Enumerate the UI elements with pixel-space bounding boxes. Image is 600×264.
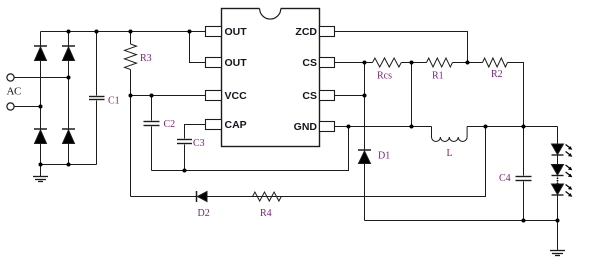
capacitor C2 [144,96,160,171]
wire D1 anode down [364,164,366,221]
capacitor C4 [516,127,532,221]
svg-text:AC: AC [7,86,22,98]
wire L to LED rail [467,126,557,128]
svg-text:L: L [447,148,453,159]
wire CAP link [185,125,206,139]
node bottom rail left [39,163,43,167]
svg-text:Rcs: Rcs [377,70,392,81]
pin box OUT2 [206,58,222,68]
IC U1 body [222,7,320,146]
wire OUT2 link [190,32,206,63]
wire CS2 row [335,95,365,97]
LED LED1 [552,144,564,155]
diode bridge D-bot-right [62,129,75,144]
wire R2 drop [508,63,524,127]
svg-text:C2: C2 [164,119,176,130]
svg-text:D1: D1 [378,151,390,162]
diode D2 [197,191,208,202]
capacitor C3 [177,140,192,171]
wire CS row [335,62,373,64]
svg-text:OUT: OUT [225,26,248,38]
node R1/R2/ZCD [466,61,470,65]
svg-text:R3: R3 [140,53,152,64]
terminal AC2 [7,103,14,110]
wire top rail [41,31,206,33]
LED dots separator [557,177,559,184]
pin box VCC [206,91,222,101]
wire AC line 2 [14,106,40,108]
resistor R1 [427,58,453,67]
LED LED3 [552,184,564,221]
svg-text:R4: R4 [260,208,272,219]
LED arrows 2 [566,165,573,177]
svg-text:CAP: CAP [225,119,247,131]
svg-text:VCC: VCC [225,90,248,102]
svg-text:D2: D2 [198,208,210,219]
pin box GND [320,122,335,132]
node C3 ground [183,169,187,173]
wire D1 column [364,63,366,150]
svg-text:ZCD: ZCD [295,26,317,38]
node C4 bottom [522,219,526,223]
wire AC line 1 [14,77,68,79]
svg-text:C1: C1 [108,96,120,107]
resistor R3 [125,32,137,197]
node CS/D1 [363,61,367,65]
node bottom rail right [67,163,71,167]
node LED bottom [556,219,560,223]
node Rcs/R1 [410,61,414,65]
node top rail / C1 [95,30,99,34]
ground (LED string) [550,221,565,256]
svg-text:OUT: OUT [225,57,248,69]
wire y220 rail [365,220,558,222]
wire ground return y170 [152,127,349,171]
wire ZCD link [335,32,468,63]
node VCC/C2 [150,94,154,98]
svg-text:CS: CS [302,90,317,102]
node top rail / bridge right [67,30,71,34]
node top rail / OUT2 [188,30,192,34]
svg-text:C3: C3 [193,138,205,149]
resistor Rcs [373,58,402,67]
resistor R4 [253,192,282,201]
node VCC/R3 [129,94,133,98]
wire bridge right column [68,32,70,165]
pin box ZCD [320,27,335,37]
node CS2/D1 [363,94,367,98]
terminal AC1 [7,74,14,81]
diode bridge D-top-right [62,46,75,61]
resistor R2 [483,58,508,67]
svg-text:C4: C4 [499,173,511,184]
diode bridge D-top-left [34,46,47,61]
wire VCC row [131,95,206,97]
svg-text:R2: R2 [491,69,503,80]
wire LED column top [557,127,559,177]
wire GND row [335,126,432,128]
node AC1 [67,76,71,80]
wire bridge bottom rail [41,164,97,166]
wire Rcs-R1 [401,62,426,64]
node GND/R1 drop [410,125,414,129]
node C4 top [522,125,526,129]
LED LED2 [552,165,564,176]
ground (bridge) [33,165,48,182]
LED arrows 1 [566,145,573,157]
wire R1-R2 [453,62,483,64]
node top rail / R3 [129,30,133,34]
pin box OUT1 [206,27,222,37]
diode bridge D-bot-left [34,129,47,144]
wire bridge left column [40,32,42,165]
diode D1 [358,150,371,164]
node GND/return [347,125,351,129]
pin box CS1 [320,58,335,68]
inductor L [432,127,468,142]
capacitor C1 [89,32,105,165]
pin box CAP [206,120,222,130]
LED arrows 3 [566,185,573,197]
node L out / bottom loop [484,125,488,129]
wire Rcs/R1 drop [411,63,413,127]
pin box CS2 [320,91,335,101]
node AC2 [39,105,43,109]
svg-text:CS: CS [302,57,317,69]
wire bottom loop y196 [131,127,486,197]
svg-text:R1: R1 [432,70,444,81]
svg-text:GND: GND [294,121,318,133]
